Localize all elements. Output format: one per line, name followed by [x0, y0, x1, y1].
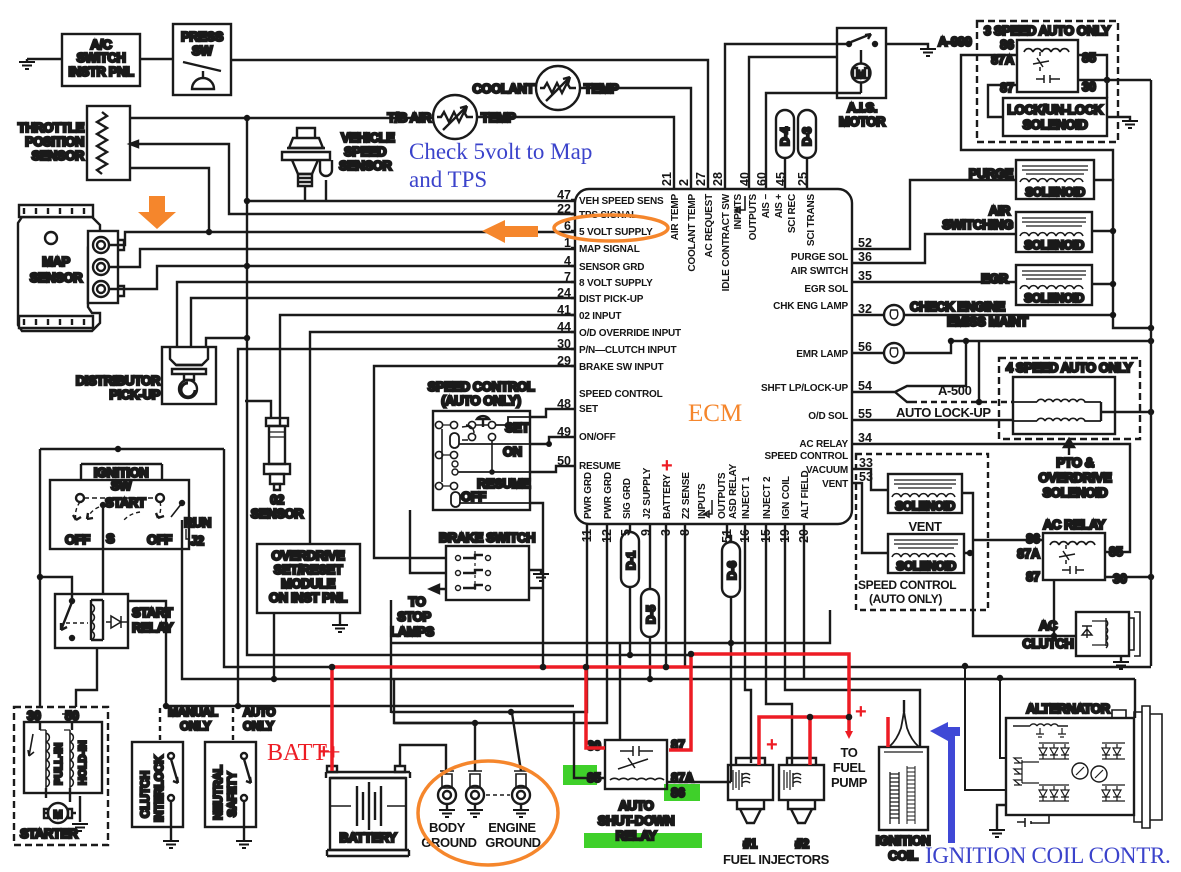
svg-text:SAFETY: SAFETY — [225, 772, 239, 817]
starter STARTER dashed box — [14, 707, 108, 845]
svg-text:4 SPEED AUTO ONLY: 4 SPEED AUTO ONLY — [1006, 360, 1133, 375]
vacuum solenoid — [888, 474, 962, 513]
svg-text:ALTERNATOR: ALTERNATOR — [1026, 701, 1110, 716]
svg-text:LOCK/UN-LOCK: LOCK/UN-LOCK — [1007, 102, 1104, 117]
svg-text:SENSOR: SENSOR — [251, 506, 305, 521]
svg-text:D-4: D-4 — [778, 127, 792, 146]
svg-text:SCI TRANS: SCI TRANS — [806, 193, 817, 246]
svg-text:VEH SPEED SENS: VEH SPEED SENS — [579, 196, 664, 207]
body ground bolt 2 — [466, 771, 484, 817]
wire z2 sense pin8 — [684, 524, 686, 667]
svg-text:SPEED CONTROL: SPEED CONTROL — [428, 379, 535, 394]
svg-text:AC RELAY: AC RELAY — [1043, 517, 1106, 532]
red junction dots — [329, 651, 853, 721]
wire VSS legs to pin47 — [305, 180, 326, 201]
ECM left pin stubs — [571, 200, 575, 366]
wire 4speed out right — [1101, 411, 1151, 413]
ECM left pin labels — [579, 196, 681, 472]
wire chk eng lamp pin32 — [852, 314, 1113, 316]
wire AC relay feed pin34 — [852, 444, 1130, 552]
coolant temp sensor circle — [473, 66, 620, 110]
wire relay 85 right — [1078, 55, 1107, 80]
wire ign coil pin19 — [785, 524, 920, 747]
wire ign top bus down — [224, 449, 1151, 667]
wire on/off pin49 — [530, 437, 576, 444]
overdrive set/reset module — [257, 544, 360, 613]
wire bolt2 riser — [394, 679, 475, 771]
ECM top pin numbers (rotated) — [660, 172, 810, 186]
svg-text:#1: #1 — [743, 836, 757, 851]
red fuel pump arrow — [845, 731, 853, 739]
svg-text:GROUND: GROUND — [485, 835, 540, 850]
D-4 connector — [776, 110, 794, 190]
svg-text:ON INST PNL: ON INST PNL — [269, 590, 347, 605]
svg-text:FUEL INJECTORS: FUEL INJECTORS — [723, 852, 830, 867]
sensor ground trunk — [247, 118, 691, 655]
svg-text:SOLENOID: SOLENOID — [1024, 291, 1084, 305]
wire O2 input pin41 — [280, 315, 576, 418]
svg-text:5 VOLT SUPPLY: 5 VOLT SUPPLY — [579, 227, 653, 238]
speed control solenoids dashed box — [856, 454, 988, 610]
svg-text:IGNITION COIL CONTR.: IGNITION COIL CONTR. — [925, 843, 1170, 868]
svg-text:SWITCHING: SWITCHING — [942, 217, 1013, 232]
svg-text:OFF: OFF — [461, 489, 486, 504]
A.I.S. motor M1 — [837, 28, 886, 129]
lock/un-lock solenoid — [1003, 98, 1107, 136]
AC relay K2 — [1017, 517, 1127, 586]
fuel injector 1 — [728, 758, 773, 851]
svg-text:SPEED: SPEED — [344, 144, 386, 159]
wire vacuum pin33 — [852, 469, 888, 490]
wire O/D override pin44 to module — [310, 332, 576, 544]
svg-text:VENT: VENT — [822, 479, 848, 490]
svg-text:AC: AC — [1039, 618, 1058, 633]
svg-text:STOP: STOP — [397, 609, 431, 624]
wire 8 volt supply to distributor — [177, 282, 576, 347]
wire bus 664 — [224, 449, 544, 664]
svg-text:30: 30 — [1113, 572, 1127, 586]
svg-text:A-999: A-999 — [938, 34, 972, 49]
green highlight asd 86 — [664, 784, 700, 801]
ECM top pin labels (rotated) — [670, 193, 817, 291]
lock/unlock relay — [991, 38, 1096, 95]
svg-text:SWITCH: SWITCH — [77, 50, 126, 65]
ignition switch top wire — [40, 448, 224, 450]
wire AIS- pin40 — [749, 57, 837, 190]
svg-text:85: 85 — [1109, 545, 1123, 559]
wire air temp to pin21 — [477, 117, 674, 190]
svg-text:87: 87 — [1000, 81, 1014, 95]
svg-text:COIL: COIL — [888, 848, 918, 863]
svg-text:SOLENOID: SOLENOID — [1023, 117, 1088, 132]
wire EGR sol pin35 — [852, 281, 1016, 283]
wire AIS+ pin60 — [766, 93, 861, 190]
svg-text:HOLD-IN: HOLD-IN — [77, 740, 89, 785]
wire AIS to A-999 ground — [886, 44, 928, 49]
wire branch to start relay switch — [40, 577, 72, 601]
svg-text:POSITION: POSITION — [25, 134, 84, 149]
svg-text:NEUTRAL: NEUTRAL — [211, 765, 225, 820]
svg-text:SENSOR: SENSOR — [30, 270, 84, 285]
map sensor MAP — [18, 205, 124, 331]
svg-text:COOLANT: COOLANT — [473, 81, 535, 96]
wire inject2 pin15 — [766, 524, 792, 765]
svg-text:SHFT LP/LOCK-UP: SHFT LP/LOCK-UP — [761, 383, 849, 394]
red plus marks — [318, 455, 867, 763]
svg-text:FUEL: FUEL — [833, 760, 866, 775]
solenoid right bus — [1092, 180, 1151, 328]
svg-text:SET: SET — [579, 404, 598, 415]
svg-text:MOTOR: MOTOR — [839, 114, 886, 129]
svg-text:MAP SIGNAL: MAP SIGNAL — [579, 244, 640, 255]
svg-text:SIG GRD: SIG GRD — [622, 478, 633, 519]
press switch SW1 — [173, 24, 231, 95]
blue ignition coil contr arrow — [930, 722, 960, 741]
wire dist pick-up — [191, 298, 576, 347]
svg-text:SET: SET — [505, 420, 530, 435]
svg-text:#2: #2 — [795, 836, 809, 851]
wire bus 643 — [391, 610, 830, 643]
ECM right pin labels — [761, 252, 849, 490]
svg-text:CLUTCH: CLUTCH — [138, 771, 152, 818]
svg-text:SENSOR: SENSOR — [339, 158, 393, 173]
svg-text:87: 87 — [1026, 570, 1040, 584]
AC clutch — [1022, 612, 1140, 656]
ECM bottom pin labels (rotated) — [583, 463, 811, 519]
svg-text:ASD RELAY: ASD RELAY — [728, 463, 739, 519]
wire purge sol pin52 — [852, 180, 1016, 249]
ignition coil T1 — [876, 700, 931, 863]
alternator ALT — [1006, 701, 1162, 828]
svg-text:DISTRIBUTOR: DISTRIBUTOR — [76, 373, 161, 388]
wire battery neg to body ground — [400, 745, 446, 774]
svg-text:+: + — [766, 734, 778, 756]
svg-text:EGR SOL: EGR SOL — [804, 284, 848, 295]
engine ground bolt 3 — [486, 771, 530, 817]
svg-text:VACUUM: VACUUM — [806, 465, 848, 476]
svg-text:4: 4 — [564, 254, 571, 268]
wire P/N clutch input pin30 — [238, 349, 576, 706]
3 speed auto only dashed box — [977, 21, 1118, 142]
svg-text:S: S — [106, 531, 115, 546]
svg-text:A-500: A-500 — [938, 383, 972, 398]
svg-text:BRAKE SWITCH: BRAKE SWITCH — [439, 530, 535, 545]
alternator capacitor + ground — [989, 805, 1049, 837]
wire bus 657 to asd area — [789, 656, 791, 658]
svg-text:THROTTLE: THROTTLE — [18, 120, 85, 135]
svg-text:ON/OFF: ON/OFF — [579, 432, 616, 443]
wire brake area down to bus643 — [390, 600, 392, 713]
wire manual/auto bus — [166, 705, 574, 707]
svg-text:M: M — [856, 69, 865, 81]
wire shft lp/lock-up pin54 fork — [852, 341, 966, 402]
T/B air temp sensor circle — [387, 95, 516, 139]
svg-text:02 INPUT: 02 INPUT — [579, 311, 621, 322]
svg-text:VENT: VENT — [908, 519, 942, 534]
wire speed control to brake row2 — [410, 510, 446, 573]
wire TPS low to 5V — [130, 168, 209, 231]
svg-text:21: 21 — [660, 172, 674, 186]
svg-text:IGNITION: IGNITION — [876, 833, 931, 848]
wire asd 85 left — [574, 712, 605, 778]
wire left trunk to starter 30 — [39, 449, 41, 707]
wire solenoids right bus to AC clutch — [962, 493, 1076, 636]
svg-text:OVERDRIVE: OVERDRIVE — [272, 548, 346, 563]
svg-text:AUTO LOCK-UP: AUTO LOCK-UP — [896, 405, 991, 420]
svg-text:PURGE: PURGE — [969, 166, 1014, 181]
svg-text:ON: ON — [503, 444, 522, 459]
svg-text:A.I.S.: A.I.S. — [847, 100, 877, 115]
wire MAP signal pin1 — [109, 249, 576, 267]
wire coolant to pin2 — [580, 88, 691, 190]
svg-text:T/B AIR: T/B AIR — [387, 110, 432, 125]
svg-text:RELAY: RELAY — [616, 828, 658, 843]
svg-text:3 SPEED AUTO ONLY: 3 SPEED AUTO ONLY — [984, 23, 1111, 38]
svg-text:SOLENOID: SOLENOID — [1043, 485, 1108, 500]
svg-text:+: + — [855, 701, 867, 723]
ECM outputs bracket bottom — [704, 500, 712, 517]
svg-text:BATTERY: BATTERY — [339, 830, 397, 845]
svg-text:+: + — [318, 741, 330, 763]
svg-text:AIS +: AIS + — [774, 194, 785, 219]
wire o/d sol pin55 — [852, 419, 1013, 421]
D-1 connector — [621, 524, 639, 655]
svg-text:SET/RESET: SET/RESET — [274, 562, 343, 577]
wire overdrive module down — [273, 613, 275, 679]
to fuel pump label — [831, 745, 868, 790]
wire brake switch to red bus — [529, 573, 543, 667]
svg-text:OUTPUTS: OUTPUTS — [717, 472, 728, 519]
svg-text:CHK ENG LAMP: CHK ENG LAMP — [773, 301, 848, 312]
svg-text:2: 2 — [677, 179, 691, 186]
svg-text:MODULE: MODULE — [281, 576, 336, 591]
wire AC relay 30 right — [1105, 576, 1151, 578]
svg-text:LAMPS: LAMPS — [390, 624, 434, 639]
body/engine ground labels — [421, 820, 540, 850]
fuel injector 2 — [779, 758, 824, 851]
svg-text:D-3: D-3 — [800, 127, 814, 146]
ground A-999 — [920, 34, 972, 56]
svg-text:AIR SWITCH: AIR SWITCH — [791, 266, 848, 277]
throttle position sensor TPS — [18, 106, 130, 180]
ECM inputs bracket top — [735, 196, 745, 213]
wire vent pin53 — [852, 483, 888, 553]
wire J2 run bus — [182, 520, 1135, 718]
brake switch ground — [529, 570, 549, 581]
svg-text:and TPS: and TPS — [409, 167, 487, 192]
svg-text:47: 47 — [557, 188, 571, 202]
wire relay 30 — [1078, 79, 1151, 81]
green highlight asd 85 — [563, 765, 597, 785]
ground G1 (A/C switch) — [19, 59, 35, 69]
svg-text:30: 30 — [1082, 80, 1096, 94]
body ground bolt 1 — [438, 771, 456, 817]
D-5 connector — [641, 524, 659, 679]
svg-text:D-1: D-1 — [624, 551, 638, 570]
svg-text:SW: SW — [192, 43, 213, 58]
wire right vertical to solenoid top — [1106, 80, 1108, 98]
wire alt field pin20 — [803, 524, 805, 678]
clutch interlock switch — [132, 742, 183, 827]
PTO & overdrive solenoid label — [1039, 439, 1113, 500]
wire idle contract sw pin28 to AIS — [725, 44, 849, 190]
svg-text:TO: TO — [408, 594, 425, 609]
svg-text:SPEED CONTROL: SPEED CONTROL — [858, 578, 956, 592]
svg-text:SHUT-DOWN: SHUT-DOWN — [598, 813, 675, 828]
svg-text:CLUTCH: CLUTCH — [1022, 636, 1073, 651]
svg-text:22: 22 — [557, 202, 571, 216]
svg-text:SOLENOID: SOLENOID — [1025, 185, 1085, 199]
wire pwr grd pin11 bus — [391, 524, 587, 712]
wire speed ctl on/off junction down — [530, 437, 549, 449]
ignition switch IGN — [50, 449, 211, 549]
purge solenoid — [969, 160, 1094, 199]
wire TPS top to sensor-grd — [130, 117, 433, 119]
svg-text:28: 28 — [711, 172, 725, 186]
ECM left pin numbers — [557, 188, 571, 468]
ECM U1 box — [575, 189, 852, 524]
svg-text:IGN COIL: IGN COIL — [781, 476, 792, 519]
svg-text:EMR LAMP: EMR LAMP — [796, 349, 848, 360]
svg-text:OVERDRIVE: OVERDRIVE — [1039, 470, 1113, 485]
wire relay 86 feed — [961, 55, 1113, 180]
svg-text:87A: 87A — [1017, 547, 1040, 561]
clutch interlock ground — [163, 827, 179, 848]
svg-text:SENSOR GRD: SENSOR GRD — [579, 262, 644, 273]
green highlight asd relay label — [584, 833, 702, 848]
svg-text:PWR GRD: PWR GRD — [583, 472, 594, 519]
wire brake sw input pin29 — [374, 366, 576, 558]
svg-text:VEHICLE: VEHICLE — [341, 130, 395, 145]
svg-text:SPEED CONTROL: SPEED CONTROL — [579, 389, 663, 400]
svg-text:ONLY: ONLY — [180, 719, 211, 733]
svg-text:J2: J2 — [190, 533, 204, 548]
svg-text:RELAY: RELAY — [132, 620, 174, 635]
brake switch — [439, 530, 535, 600]
manual only / auto only labels — [160, 705, 275, 742]
svg-text:TO: TO — [840, 745, 857, 760]
svg-text:OUTPUTS: OUTPUTS — [748, 193, 759, 240]
svg-text:SCI REC: SCI REC — [787, 194, 798, 233]
red batt+ wire — [332, 654, 888, 771]
wire alternator taps — [965, 666, 1135, 790]
distributor pick-up DIST — [76, 347, 216, 404]
ECM bottom pin numbers (rotated) — [580, 529, 811, 543]
wire resume pin50 — [530, 466, 576, 573]
svg-text:MAP: MAP — [42, 254, 70, 269]
svg-text:AC REQUEST: AC REQUEST — [704, 194, 715, 258]
svg-text:ONLY: ONLY — [243, 719, 274, 733]
svg-text:P/N—CLUTCH INPUT: P/N—CLUTCH INPUT — [579, 345, 676, 356]
neutral safety ground — [236, 827, 252, 848]
svg-text:CHECK ENGINE: CHECK ENGINE — [910, 299, 1006, 314]
lock solenoid ground — [1107, 117, 1138, 128]
check engine lamp L1 — [884, 299, 1028, 329]
svg-text:Z2 SENSE: Z2 SENSE — [681, 472, 692, 519]
vehicle speed sensor VSS — [282, 128, 395, 186]
svg-text:+: + — [661, 455, 673, 477]
svg-text:8 VOLT SUPPLY: 8 VOLT SUPPLY — [579, 278, 653, 289]
svg-text:SENSOR: SENSOR — [31, 148, 85, 163]
neutral safety switch — [205, 742, 256, 827]
battery B1 — [326, 766, 410, 856]
svg-text:RESUME: RESUME — [579, 461, 621, 472]
svg-text:D-6: D-6 — [725, 561, 739, 580]
svg-text:AC RELAY: AC RELAY — [799, 439, 848, 450]
svg-text:OFF: OFF — [147, 532, 172, 547]
svg-text:AIR: AIR — [989, 203, 1011, 218]
wire set pin48 — [530, 409, 576, 417]
wire MAP 5V supply pin6 — [109, 232, 576, 245]
svg-text:86: 86 — [1000, 38, 1014, 52]
svg-text:O/D SOL: O/D SOL — [808, 411, 848, 422]
EGR solenoid — [981, 265, 1092, 305]
svg-text:AIR TEMP: AIR TEMP — [670, 193, 681, 240]
svg-text:SOLENOID: SOLENOID — [1024, 238, 1084, 252]
wire ignition S to start relay — [102, 508, 104, 594]
svg-text:DIST PICK-UP: DIST PICK-UP — [579, 294, 644, 305]
svg-text:SOLENOID: SOLENOID — [896, 559, 956, 573]
svg-text:PWR GRD: PWR GRD — [603, 472, 614, 519]
wire asd coil top — [619, 643, 621, 740]
wire AC relay 87 down — [1053, 580, 1055, 636]
svg-text:OFF: OFF — [65, 532, 90, 547]
svg-text:86: 86 — [671, 786, 685, 800]
svg-text:SPEED CONTROL: SPEED CONTROL — [764, 451, 848, 462]
svg-text:(AUTO ONLY): (AUTO ONLY) — [441, 393, 520, 408]
orange ellipse 5 volt supply — [554, 215, 668, 241]
wire — [140, 58, 173, 60]
svg-text:ECM: ECM — [688, 400, 742, 427]
svg-text:BODY: BODY — [429, 820, 466, 835]
svg-text:PURGE SOL: PURGE SOL — [791, 252, 848, 263]
svg-text:START: START — [105, 495, 146, 510]
svg-text:PRESS: PRESS — [181, 29, 224, 44]
wire TPS wiper to pin22 — [130, 141, 576, 214]
wire start relay coil to starter 50 — [76, 648, 97, 707]
wire emr lamp pin56 — [852, 341, 1151, 353]
AC clutch ground — [1113, 656, 1129, 669]
D-6 connector — [722, 524, 740, 782]
speed control servo box — [428, 379, 535, 510]
svg-text:INTERLOCK: INTERLOCK — [152, 755, 166, 822]
O2 sensor — [245, 401, 304, 521]
svg-text:PULL-IN: PULL-IN — [53, 743, 65, 785]
wire bolt3 riser — [512, 713, 521, 771]
svg-text:M: M — [53, 809, 62, 821]
svg-text:IDLE CONTRACT SW: IDLE CONTRACT SW — [721, 193, 732, 291]
svg-text:02: 02 — [270, 492, 284, 507]
air switching solenoid — [942, 203, 1092, 252]
wire AC relay 86 left — [973, 539, 1043, 541]
svg-text:RUN: RUN — [184, 515, 211, 530]
wire — [27, 58, 62, 60]
vent solenoid — [858, 534, 964, 606]
D-3 connector — [798, 110, 816, 190]
svg-text:EGR: EGR — [981, 271, 1009, 286]
asd relay K3 — [587, 738, 694, 843]
EMR lamp L2 — [884, 343, 904, 363]
svg-text:BATTERY: BATTERY — [662, 474, 673, 519]
svg-text:D-5: D-5 — [644, 605, 658, 624]
overdrive module ground — [332, 613, 348, 632]
svg-text:INJECT 1: INJECT 1 — [741, 476, 752, 519]
svg-text:J2 SUPPLY: J2 SUPPLY — [642, 467, 653, 519]
svg-text:PTO &: PTO & — [1056, 455, 1094, 470]
svg-text:ALT FIELD: ALT FIELD — [800, 470, 811, 519]
svg-text:(AUTO ONLY): (AUTO ONLY) — [869, 592, 942, 606]
svg-text:SW: SW — [111, 478, 132, 493]
